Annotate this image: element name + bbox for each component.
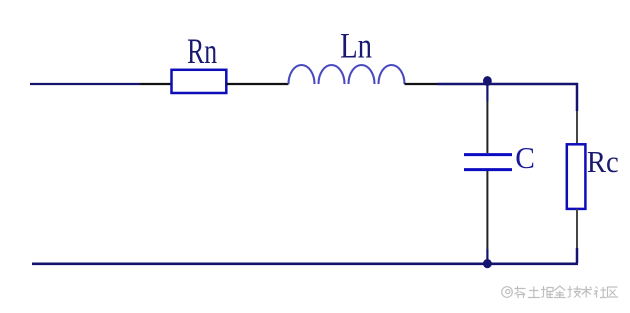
wire right branch vertical (navy)	[576, 83, 579, 111]
glyph @	[502, 287, 513, 298]
label C	[515, 140, 535, 175]
glyph 土	[528, 287, 540, 298]
glyph 稀	[515, 286, 526, 298]
resistor Rc	[567, 144, 586, 209]
glyph 掘	[541, 286, 553, 298]
label Ln	[340, 26, 372, 66]
wire resistor Rc top pin	[576, 111, 578, 144]
resistor Rn	[172, 70, 227, 93]
node junction dot top	[483, 76, 492, 86]
wire between Rn and Ln (pins)	[227, 83, 289, 85]
glyph 金	[554, 286, 566, 298]
node junction dot bottom	[483, 259, 492, 268]
watermark @稀土掘金技术社区	[502, 286, 618, 298]
wire capacitor C bottom pin	[486, 171, 488, 249]
label Rc	[587, 146, 619, 179]
glyph 区	[608, 287, 619, 297]
glyph 社	[594, 287, 607, 298]
wire capacitor branch upper (navy)	[486, 84, 488, 101]
svg-text:Ln: Ln	[340, 26, 372, 66]
wire resistor Rn left pin	[141, 83, 172, 85]
wire top-right net	[437, 83, 577, 86]
svg-text:C: C	[515, 140, 535, 175]
wire top-left net	[30, 83, 141, 85]
glyph 技	[568, 286, 582, 298]
wire resistor Rc bottom pin	[576, 209, 578, 248]
label Rn	[187, 31, 217, 71]
inductor Ln	[289, 65, 405, 84]
wire capacitor branch lower (navy)	[486, 249, 488, 263]
wire capacitor C top pin	[486, 101, 488, 153]
capacitor C	[464, 155, 512, 170]
glyph 术	[581, 286, 592, 298]
wire right branch lower (navy)	[576, 248, 579, 263]
wire inductor Ln right pin	[405, 83, 438, 85]
wire bottom net	[32, 262, 578, 265]
svg-text:Rc: Rc	[587, 146, 619, 179]
svg-text:Rn: Rn	[187, 31, 217, 71]
